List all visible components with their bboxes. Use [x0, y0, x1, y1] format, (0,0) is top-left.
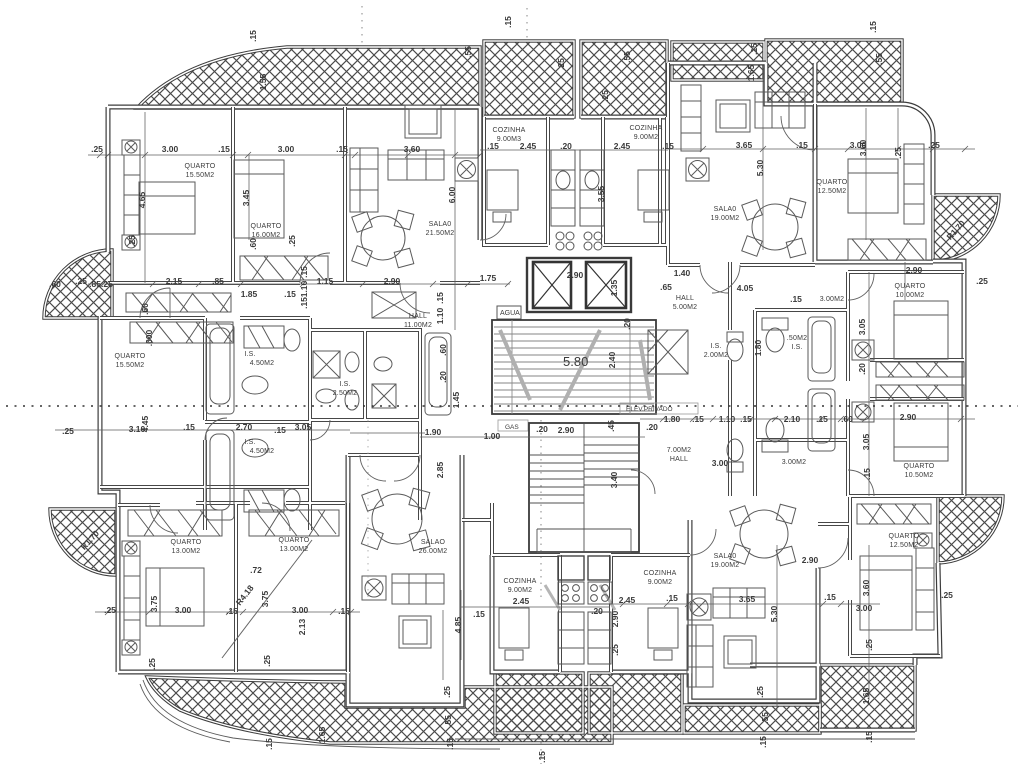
- closet strip hall-left upper: [126, 293, 231, 312]
- svg-text:COZINHA: COZINHA: [644, 570, 677, 577]
- svg-text:.20: .20: [646, 422, 658, 432]
- svg-text:4.65: 4.65: [137, 191, 147, 208]
- top center dotted: [362, 6, 541, 764]
- svg-text:15.50M2: 15.50M2: [116, 362, 145, 369]
- gas box: [498, 420, 528, 431]
- table salao26: [372, 494, 422, 544]
- svg-text:13.00M2: 13.00M2: [172, 548, 201, 555]
- square table salao26: [399, 616, 431, 648]
- svg-text:10.50M2: 10.50M2: [905, 472, 934, 479]
- svg-text:.15: .15: [183, 422, 195, 432]
- svg-text:3.05: 3.05: [857, 318, 867, 335]
- svg-text:.85.25: .85.25: [89, 279, 113, 289]
- svg-text:.25: .25: [127, 235, 137, 247]
- svg-text:1.85: 1.85: [241, 289, 258, 299]
- svg-text:QUARTO: QUARTO: [904, 463, 935, 470]
- svg-text:2.45: 2.45: [619, 595, 636, 605]
- svg-text:2.90: 2.90: [384, 276, 401, 286]
- svg-text:GAS: GAS: [505, 424, 519, 431]
- svg-text:QUARTO: QUARTO: [895, 283, 926, 290]
- counters bottom cozinhas: [558, 612, 611, 664]
- tub right-mid low: [808, 389, 835, 451]
- svg-text:19.00M2: 19.00M2: [711, 562, 740, 569]
- svg-text:5.00M2: 5.00M2: [673, 304, 698, 311]
- svg-text:QUARTO: QUARTO: [251, 223, 282, 230]
- svg-text:.15: .15: [749, 43, 759, 55]
- closets quarto13-1: [128, 510, 222, 536]
- stair gray diagonals: [500, 330, 650, 410]
- shaft boxes below stairs: [558, 556, 584, 580]
- svg-text:1.80: 1.80: [753, 339, 763, 356]
- svg-text:.15: .15: [824, 592, 836, 602]
- svg-text:.25: .25: [287, 235, 297, 247]
- dim row mid-left y430: [55, 430, 645, 437]
- dim vertical x541 center bottom dotted: [540, 420, 542, 600]
- svg-text:21.50M2: 21.50M2: [426, 230, 455, 237]
- closet quarto12.5 TR: [904, 144, 924, 224]
- svg-text:.72: .72: [250, 565, 262, 575]
- svg-text:.600: .600: [144, 329, 154, 346]
- svg-text:11.00M2: 11.00M2: [404, 322, 432, 329]
- tub left IS up: [206, 324, 234, 414]
- svg-text:COZINHA: COZINHA: [630, 125, 663, 132]
- svg-text:3.05: 3.05: [861, 433, 871, 450]
- agua box: [497, 306, 521, 319]
- lower stair shaft: [529, 423, 639, 552]
- svg-text:3.40: 3.40: [609, 471, 619, 488]
- svg-text:I.S.: I.S.: [339, 381, 350, 388]
- svg-text:2.40: 2.40: [607, 351, 617, 368]
- dresser quarto TL1: [124, 155, 140, 235]
- svg-text:2.90: 2.90: [567, 270, 584, 280]
- dim row bottom-right y604: [460, 604, 880, 607]
- room labels: [115, 125, 935, 594]
- svg-text:.20: .20: [591, 606, 603, 616]
- tv salao21.5: [405, 105, 441, 138]
- svg-text:.15: .15: [692, 414, 704, 424]
- svg-text:.15: .15: [864, 731, 874, 743]
- svg-text:.15: .15: [796, 140, 808, 150]
- stove cozinha TR: [686, 158, 709, 181]
- svg-text:.15: .15: [537, 751, 547, 763]
- kitchen table cozinha BR: [648, 608, 678, 648]
- closet quarto12.5 B: [916, 548, 934, 630]
- svg-text:1.40: 1.40: [674, 268, 691, 278]
- svg-text:.15: .15: [758, 736, 768, 748]
- svg-text:.25: .25: [556, 58, 566, 70]
- svg-text:3.00: 3.00: [292, 605, 309, 615]
- svg-text:.25: .25: [91, 144, 103, 154]
- svg-text:3.75: 3.75: [260, 590, 270, 607]
- svg-text:.25: .25: [147, 658, 157, 670]
- dim row 2 left y284: [88, 283, 510, 285]
- bed quarto TL1: [139, 182, 195, 234]
- svg-text:3.00: 3.00: [856, 603, 873, 613]
- svg-text:.15: .15: [284, 289, 296, 299]
- dim verticals left apt: [145, 110, 455, 330]
- hall tub near core: [425, 333, 451, 415]
- svg-text:.60: .60: [841, 414, 853, 424]
- svg-text:3.65: 3.65: [739, 594, 756, 604]
- svg-text:I.S.: I.S.: [791, 344, 802, 351]
- stove salao19 B: [687, 594, 711, 620]
- svg-text:.85: .85: [212, 276, 224, 286]
- svg-text:26.00M2: 26.00M2: [419, 548, 448, 555]
- shelf salao19: [681, 85, 701, 151]
- svg-text:15.50M2: 15.50M2: [186, 172, 215, 179]
- svg-text:.15: .15: [435, 292, 445, 304]
- closet hall11: [372, 292, 416, 318]
- svg-text:.25: .25: [941, 590, 953, 600]
- svg-text:.15: .15: [299, 266, 309, 278]
- svg-text:2.90: 2.90: [558, 425, 575, 435]
- elevator 1: [533, 262, 571, 308]
- svg-text:2.45: 2.45: [520, 141, 537, 151]
- svg-text:.50M2: .50M2: [787, 335, 807, 342]
- dim texts horizontal: [49, 140, 988, 619]
- svg-text:1.65: 1.65: [746, 64, 756, 81]
- tub left IS low: [206, 430, 234, 520]
- stair treads: [494, 320, 654, 414]
- svg-text:2.85: 2.85: [435, 461, 445, 478]
- bed quarto12.5 B: [860, 556, 912, 630]
- svg-text:1.15: 1.15: [317, 276, 334, 286]
- svg-text:2.13: 2.13: [297, 618, 307, 635]
- svg-text:1.45: 1.45: [451, 391, 461, 408]
- svg-text:.60: .60: [140, 303, 150, 315]
- svg-text:13.00M2: 13.00M2: [280, 546, 309, 553]
- sink circles bottom cozinhas: [558, 582, 612, 604]
- bed quarto TL2: [234, 160, 284, 238]
- svg-text:1.65: 1.65: [861, 687, 871, 704]
- svg-text:.25: .25: [104, 605, 116, 615]
- svg-text:2.45: 2.45: [614, 141, 631, 151]
- svg-text:.15: .15: [445, 738, 455, 750]
- stove box salao26: [362, 576, 386, 600]
- svg-text:I.S.: I.S.: [244, 351, 255, 358]
- sinks toilets left IS: [242, 376, 268, 394]
- dim row top-right y149: [668, 148, 975, 150]
- tv salao19: [716, 100, 750, 132]
- table salao19 B round: [740, 510, 788, 558]
- dim verticals right apt: [763, 68, 898, 250]
- svg-text:1.75: 1.75: [480, 273, 497, 283]
- svg-text:1.35: 1.35: [609, 279, 619, 296]
- svg-text:2.50M2: 2.50M2: [333, 390, 358, 397]
- svg-text:QUARTO: QUARTO: [185, 163, 216, 170]
- svg-text:2.15: 2.15: [166, 276, 183, 286]
- svg-text:2.90: 2.90: [906, 265, 923, 275]
- bed quarto13-1: [146, 568, 204, 626]
- svg-text:3.00: 3.00: [712, 458, 729, 468]
- bed quarto12.5 TR: [848, 159, 898, 213]
- svg-text:.15: .15: [274, 425, 286, 435]
- wardrobe quarto12.5 B: [857, 504, 931, 524]
- svg-text:.20: .20: [536, 424, 548, 434]
- centerline dotted: [6, 405, 1018, 407]
- svg-text:.15: .15: [816, 414, 828, 424]
- svg-text:3.65: 3.65: [736, 140, 753, 150]
- svg-text:9.00M2: 9.00M2: [634, 134, 659, 141]
- dresser quarto13-1: [124, 556, 140, 640]
- dim verticals right-mid x869,x905: [869, 262, 905, 496]
- svg-text:1.55: 1.55: [258, 73, 268, 90]
- svg-text:7.00M2: 7.00M2: [667, 447, 692, 454]
- elevator 2: [586, 262, 626, 308]
- sink strips top cozinhas: [551, 150, 604, 250]
- svg-text:16.00M2: 16.00M2: [252, 232, 281, 239]
- svg-text:.55: .55: [760, 712, 770, 724]
- aparador salao19 B: [713, 588, 765, 618]
- svg-text:I.S.: I.S.: [244, 439, 255, 446]
- svg-text:3.00M2: 3.00M2: [782, 459, 807, 466]
- svg-text:1.10: 1.10: [299, 280, 309, 297]
- toilet sink right-mid: [766, 328, 784, 352]
- svg-text:.25: .25: [610, 644, 620, 656]
- svg-text:AGUA: AGUA: [500, 310, 520, 317]
- svg-text:3.60: 3.60: [861, 579, 871, 596]
- svg-text:.55: .55: [463, 46, 473, 58]
- svg-text:.65: .65: [660, 282, 672, 292]
- svg-text:4.45: 4.45: [140, 415, 150, 432]
- svg-text:.15: .15: [862, 468, 872, 480]
- svg-text:3.00: 3.00: [175, 605, 192, 615]
- svg-text:3.00M2: 3.00M2: [820, 296, 845, 303]
- svg-text:3.60: 3.60: [858, 139, 868, 156]
- svg-text:1.00: 1.00: [484, 431, 501, 441]
- svg-text:.25: .25: [893, 147, 903, 159]
- dim verticals bottom: [443, 545, 869, 710]
- svg-text:19.00M2: 19.00M2: [711, 215, 740, 222]
- svg-text:.60: .60: [438, 344, 448, 356]
- svg-text:3.00: 3.00: [278, 144, 295, 154]
- svg-text:4.05: 4.05: [737, 283, 754, 293]
- svg-text:.15: .15: [299, 297, 309, 309]
- svg-text:2.10: 2.10: [784, 414, 801, 424]
- closet strips right-mid: [876, 362, 964, 377]
- svg-text:.20: .20: [560, 141, 572, 151]
- table salao19: [752, 204, 798, 250]
- kitchen table cozinha TR: [638, 170, 669, 210]
- svg-text:QUARTO: QUARTO: [889, 533, 920, 540]
- svg-text:2.70: 2.70: [236, 422, 253, 432]
- svg-text:2.90: 2.90: [610, 610, 620, 627]
- svg-text:.55: .55: [874, 53, 884, 65]
- shower right hall IS: [648, 330, 688, 374]
- svg-text:.15: .15: [248, 30, 258, 42]
- svg-text:12.50M2: 12.50M2: [818, 188, 847, 195]
- svg-text:1.90: 1.90: [425, 427, 442, 437]
- svg-text:1.10: 1.10: [719, 414, 736, 424]
- svg-text:.25: .25: [442, 686, 452, 698]
- balcony outer extra lines bottom-left: [140, 680, 915, 749]
- closets quarto13-2: [249, 510, 339, 536]
- stove cozinha TL: [455, 158, 478, 181]
- svg-text:SALA0: SALA0: [714, 553, 737, 560]
- svg-text:SALA0: SALA0: [714, 206, 737, 213]
- svg-text:.15: .15: [790, 294, 802, 304]
- svg-text:.55: .55: [443, 715, 453, 727]
- lower stair treads: [529, 423, 639, 552]
- svg-text:3.45: 3.45: [241, 189, 251, 206]
- svg-text:3.05: 3.05: [295, 422, 312, 432]
- fixtures: [122, 85, 964, 687]
- central bath 2: [372, 384, 396, 408]
- closet strip hall-left lower: [130, 322, 233, 343]
- svg-text:.20: .20: [857, 363, 867, 375]
- dim row bottom-left y612: [95, 611, 360, 613]
- svg-text:3.75: 3.75: [149, 595, 159, 612]
- stove boxes right-mid: [852, 340, 874, 360]
- kitchen table cozinha BL: [499, 608, 529, 648]
- svg-text:QUARTO: QUARTO: [279, 537, 310, 544]
- svg-text:6.00: 6.00: [447, 186, 457, 203]
- svg-text:.25: .25: [62, 426, 74, 436]
- svg-text:10.00M2: 10.00M2: [896, 292, 925, 299]
- tub right-mid up: [808, 317, 835, 381]
- svg-text:.25: .25: [976, 276, 988, 286]
- svg-text:2.90: 2.90: [900, 412, 917, 422]
- svg-text:ELEV.PRIVADO: ELEV.PRIVADO: [626, 406, 673, 413]
- svg-text:.15: .15: [666, 593, 678, 603]
- svg-text:.15: .15: [338, 606, 350, 616]
- svg-text:.25: .25: [864, 639, 874, 651]
- svg-text:COZINHA: COZINHA: [493, 127, 526, 134]
- svg-text:QUARTO: QUARTO: [817, 179, 848, 186]
- sofa salao21.5: [350, 148, 378, 212]
- svg-text:9.00M2: 9.00M2: [648, 579, 673, 586]
- stair block walls: [492, 320, 656, 414]
- svg-text:9.00M2: 9.00M2: [508, 587, 533, 594]
- core: [492, 150, 698, 664]
- svg-text:.15: .15: [336, 144, 348, 154]
- svg-text:12.50M2: 12.50M2: [890, 542, 919, 549]
- R4.18 radius line: [222, 540, 312, 658]
- core upper box: [527, 258, 631, 312]
- kitchen table cozinha TL: [487, 170, 518, 210]
- central bath shower: [313, 351, 340, 378]
- svg-text:1.65: 1.65: [317, 726, 327, 743]
- svg-text:.25: .25: [262, 655, 272, 667]
- svg-text:1.80: 1.80: [664, 414, 681, 424]
- svg-text:9.00M3: 9.00M3: [497, 136, 522, 143]
- svg-text:4.85: 4.85: [453, 616, 463, 633]
- svg-text:.20: .20: [622, 318, 632, 330]
- closet quarto TL2: [240, 256, 328, 280]
- svg-text:2.45: 2.45: [513, 596, 530, 606]
- svg-text:.15: .15: [218, 144, 230, 154]
- svg-text:.60: .60: [248, 238, 258, 250]
- svg-text:QUARTO: QUARTO: [171, 539, 202, 546]
- svg-text:.15: .15: [662, 141, 674, 151]
- doors: [140, 116, 874, 568]
- sofa salao19: [755, 92, 805, 128]
- svg-text:2.00M2: 2.00M2: [704, 352, 729, 359]
- svg-text:.25: .25: [928, 140, 940, 150]
- dim row top-left y148: [88, 154, 480, 156]
- svg-text:.15: .15: [226, 606, 238, 616]
- table salao21.5: [361, 216, 405, 260]
- svg-text:.45: .45: [606, 420, 616, 432]
- svg-text:QUARTO: QUARTO: [115, 353, 146, 360]
- svg-text:3.00: 3.00: [162, 144, 179, 154]
- svg-text:3.55: 3.55: [596, 185, 606, 202]
- svg-text:2.90: 2.90: [802, 555, 819, 565]
- svg-text:SALA0: SALA0: [429, 221, 452, 228]
- svg-text:.15: .15: [264, 738, 274, 750]
- svg-text:.25: .25: [600, 90, 610, 102]
- bed quarto10.50: [894, 403, 948, 461]
- svg-text:3.60: 3.60: [404, 144, 421, 154]
- lower stair arrows gray: [545, 585, 615, 610]
- svg-text:HALL: HALL: [409, 313, 427, 320]
- svg-text:5.30: 5.30: [769, 605, 779, 622]
- svg-text:4.50M2: 4.50M2: [250, 360, 275, 367]
- svg-text:HALL: HALL: [670, 456, 688, 463]
- elec box label: [620, 403, 698, 414]
- svg-text:4.50M2: 4.50M2: [250, 448, 275, 455]
- sofa salao26: [392, 574, 444, 604]
- svg-text:.15: .15: [868, 21, 878, 33]
- svg-text:.15: .15: [740, 414, 752, 424]
- svg-text:.15: .15: [503, 16, 513, 28]
- toilet right hall IS: [727, 339, 743, 361]
- svg-text:5.30: 5.30: [755, 159, 765, 176]
- balcony outer line bottom: [455, 738, 915, 740]
- svg-text:.60: .60: [49, 279, 61, 289]
- bed quarto10.00: [894, 301, 948, 359]
- wardrobe quarto12.5 TR: [848, 239, 926, 260]
- square table salao19 B: [724, 636, 756, 668]
- svg-text:5.80: 5.80: [563, 354, 588, 369]
- svg-text:.25: .25: [755, 686, 765, 698]
- svg-text:.15: .15: [473, 609, 485, 619]
- svg-text:.25: .25: [75, 276, 87, 286]
- svg-text:I.S.: I.S.: [710, 343, 721, 350]
- svg-text:.20: .20: [438, 371, 448, 383]
- svg-text:HALL: HALL: [676, 295, 694, 302]
- svg-text:SALAO: SALAO: [421, 539, 446, 546]
- sofa salao19 B vertical: [687, 625, 713, 687]
- svg-text:.55: .55: [622, 51, 632, 63]
- dim row mid-right y419: [640, 418, 975, 420]
- svg-text:1.10: 1.10: [435, 307, 445, 324]
- svg-text:COZINHA: COZINHA: [504, 578, 537, 585]
